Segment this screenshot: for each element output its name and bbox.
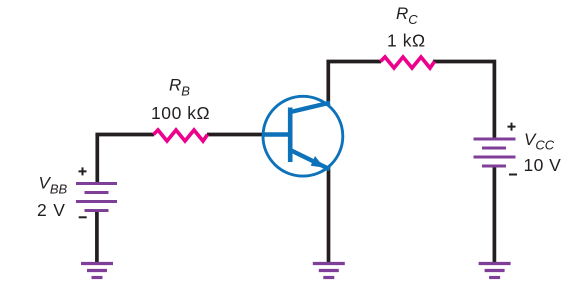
svg-text:1 kΩ: 1 kΩ [387, 31, 426, 51]
battery VCC plate long top [474, 138, 516, 141]
transistor Q1 collector lead [291, 103, 330, 112]
battery VBB plate short bottom [85, 209, 109, 212]
battery VBB plate long top [76, 182, 117, 185]
svg-text:100 kΩ: 100 kΩ [151, 103, 210, 123]
plus sign VCC [508, 123, 516, 131]
svg-text:VBB: VBB [39, 174, 68, 197]
wire collector up and top-left segment [328, 62, 381, 103]
battery VCC plate short [482, 147, 506, 150]
ground right [479, 264, 511, 278]
wire base left horizontal [97, 135, 154, 137]
svg-text:VCC: VCC [524, 130, 555, 153]
svg-text:10 V: 10 V [524, 155, 562, 175]
wire VBB vertical bottom [95, 210, 99, 265]
wire VBB vertical top [95, 134, 99, 185]
transistor Q1 emitter arrowhead [311, 156, 325, 168]
transistor Q1 base lead [262, 132, 290, 137]
ground left [81, 264, 113, 278]
svg-text:2 V: 2 V [37, 200, 66, 220]
battery VCC plate short bottom [482, 165, 506, 168]
svg-text:RC: RC [396, 4, 418, 27]
battery VBB plate long bottom [76, 200, 117, 203]
resistor RC zigzag [381, 57, 435, 68]
wire base right segment [207, 133, 263, 137]
resistor RB zigzag [154, 130, 208, 141]
plus sign VBB [79, 167, 87, 175]
transistor Q1 base bar [288, 108, 293, 163]
transistor Q1 emitter lead [291, 150, 330, 169]
minus sign VCC [509, 174, 517, 176]
wire top-right segment and VCC vertical [433, 62, 494, 141]
wire emitter vertical [327, 169, 331, 265]
ground emitter [313, 264, 345, 278]
battery VCC plate long bottom [474, 156, 516, 159]
minus sign VBB [79, 216, 87, 218]
svg-text:RB: RB [169, 76, 190, 99]
battery VBB plate short [85, 191, 109, 194]
transistor Q1 circle [263, 96, 343, 176]
wire VCC vertical bottom [493, 166, 497, 265]
